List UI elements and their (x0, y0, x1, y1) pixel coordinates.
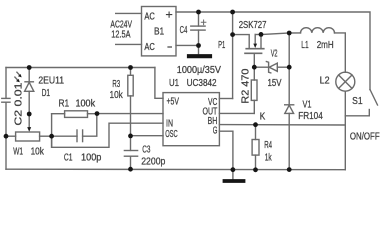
node K (253, 122, 258, 127)
arrowhead: W1 wiper (27, 127, 31, 132)
bridge rectifier B1 box (142, 7, 177, 56)
svg-text:C4: C4 (180, 24, 188, 36)
svg-text:ON/OFF: ON/OFF (350, 131, 380, 143)
svg-text:K: K (260, 110, 266, 122)
transistor Q1 2SK727 drain lead (233, 35, 250, 49)
ground symbol under C4 (189, 54, 210, 58)
wire: VC pin to riser (219, 98, 232, 100)
capacitor C4 polarity plus sign (201, 20, 206, 25)
wire: IN pin route to W1 node (52, 123, 163, 147)
svg-text:C2 0.01: C2 0.01 (12, 82, 24, 125)
capacitor C3 plates (124, 150, 137, 152)
photodiode D1 triangle (25, 82, 34, 91)
svg-text:100k: 100k (76, 97, 96, 109)
node: zener right on V1 riser (287, 65, 292, 70)
wire: source line continues to L1 (289, 32, 300, 34)
capacitor C2 plates (2, 97, 10, 99)
wire: lamp bottom down to bottom rail corner (344, 91, 346, 170)
node: W1 right / feedback (49, 134, 54, 139)
svg-text:C1: C1 (64, 151, 73, 163)
svg-text:2EU11: 2EU11 (38, 74, 64, 86)
svg-text:FR104: FR104 (298, 110, 323, 122)
svg-text:R4: R4 (264, 139, 272, 151)
capacitor C4 top lead (198, 12, 200, 26)
wire: G pin to ground drop (219, 131, 233, 170)
svg-text:+5V: +5V (167, 96, 180, 108)
wire: C3 bottom lead to rail (130, 156, 132, 169)
diode V1 triangle (285, 105, 294, 113)
diode V1 anode lead down to bottom rail (288, 113, 290, 169)
label + in bridge (drawn) (166, 12, 172, 18)
node: R3 top on left rail (128, 65, 133, 70)
node: ground drop on rail (231, 167, 236, 172)
switch S1 fixed contact stub (368, 110, 370, 116)
svg-text:V2: V2 (271, 47, 278, 59)
node: R4 bottom on rail (253, 167, 258, 172)
capacitor C1 right lead up to node (83, 114, 97, 137)
svg-text:OSC: OSC (165, 128, 178, 140)
wire: OSC pin to R3/C3 node (131, 135, 164, 137)
node: source line / V1 riser (287, 31, 292, 36)
node: Q1 source (259, 32, 264, 37)
zener diode V2 cathode bar with hooks (266, 62, 270, 73)
svg-text:S1: S1 (352, 95, 363, 107)
diode V1 FR104 cathode bar (285, 104, 294, 106)
wire: R2 bottom lead down to OUT wire (253, 100, 255, 113)
inductor L1 coil humps (301, 28, 335, 33)
svg-text:W1: W1 (13, 146, 23, 158)
svg-text:D1: D1 (42, 87, 50, 99)
svg-text:G: G (213, 125, 218, 137)
svg-text:1000µ/35V: 1000µ/35V (177, 64, 221, 76)
wire: +5V pin riser to left rail (155, 68, 163, 99)
svg-text:L2: L2 (320, 75, 330, 87)
wire: bridge minus output to C4 bottom node (176, 44, 199, 46)
svg-text:1k: 1k (265, 151, 272, 163)
svg-text:U1: U1 (169, 77, 179, 89)
wire: AC input lower lead (116, 43, 142, 45)
photodiode D1 top lead (28, 68, 30, 82)
wire: node K down to R4 (255, 125, 257, 140)
transistor Q1 gate lead down to zener node (253, 53, 255, 67)
wire: riser from source node down through zener node to V1 (288, 33, 290, 105)
wire: top +35V rail from bridge to right edge and down to switch (176, 12, 370, 90)
svg-text:10k: 10k (110, 89, 124, 101)
wire: R1 left lead (52, 113, 65, 115)
wire: node up to R1 branch (51, 114, 53, 148)
wire: OSC node down to C3 (130, 136, 132, 151)
wire: COMP pin to R1/C1 node (97, 113, 163, 115)
svg-text:P1: P1 (218, 39, 225, 51)
node: gate/zener/R2 (252, 65, 257, 70)
svg-text:10k: 10k (31, 146, 45, 158)
capacitor C1 left lead (52, 135, 77, 137)
node: wiper wire joint (27, 112, 32, 117)
wire: AC input upper lead (116, 12, 142, 14)
node: D1 top on left rail (27, 65, 32, 70)
svg-text:2mH: 2mH (317, 39, 334, 51)
photodiode D1 cathode bar (25, 81, 33, 83)
wire: R3 top lead (130, 68, 132, 76)
IC U1 UC3842 box (163, 93, 219, 146)
resistor R4 body (252, 140, 259, 156)
node: left wire / W1 (4, 134, 9, 139)
wire: left edge vertical with C2 (5, 68, 7, 99)
switch S1 blade (370, 90, 378, 106)
capacitor C4 plates (191, 25, 205, 27)
wire: R4 bottom to rail (255, 155, 257, 170)
wire: OUT pin to R2 bottom (219, 112, 254, 114)
wire: D1 anode down to W1 wiper (28, 91, 30, 127)
transistor Q1 source lead and node (261, 33, 289, 49)
svg-text:L1: L1 (301, 39, 308, 51)
node: C4 bottom / minus output (196, 43, 201, 48)
node: OSC R3 C3 (128, 134, 133, 139)
node: drain line on riser (230, 32, 235, 37)
wire: R2 top lead from gate node (253, 67, 255, 80)
wire: W1 right lead to node (40, 135, 52, 137)
lamp L2 circle with X (336, 72, 355, 91)
svg-text:2200p: 2200p (141, 156, 165, 168)
resistor R2 body (251, 80, 257, 100)
svg-text:AC: AC (144, 11, 155, 23)
wire: switch contact to lamp bottom node (345, 115, 369, 117)
svg-text:100p: 100p (81, 151, 102, 163)
potentiometer W1 body (16, 132, 40, 141)
capacitor C4 bottom lead (198, 30, 200, 53)
wire: bottom ground rail (6, 168, 345, 171)
zener diode V2 triangle (269, 63, 277, 71)
wire: ground stub below rail (232, 170, 234, 180)
wire: R1 right lead (88, 113, 98, 115)
svg-text:B1: B1 (154, 26, 164, 38)
resistor R1 body (65, 111, 88, 118)
photodiode D1 incident light arrows (17, 72, 20, 76)
ground symbol under G pin (225, 179, 244, 183)
transistor Q1 gate bar (245, 52, 262, 54)
wire: R3 bottom lead to OSC node (130, 96, 132, 136)
svg-text:UC3842: UC3842 (187, 77, 217, 89)
node: R1-C1 right / COMP (95, 111, 100, 116)
svg-text:AC: AC (144, 41, 155, 53)
svg-text:12.5A: 12.5A (111, 29, 130, 41)
node: C3 bottom on rail (128, 167, 133, 172)
node: V1 anode on rail (287, 167, 292, 172)
wire: left top rail to +5V riser (6, 67, 155, 69)
zener diode V2 right lead (278, 66, 290, 68)
label - in bridge (drawn) (167, 46, 172, 48)
resistor R3 body (128, 75, 133, 96)
wire: riser from top rail to drain line and VC pin (232, 12, 234, 99)
svg-text:R1: R1 (59, 97, 70, 109)
node: riser on +rail (230, 10, 235, 15)
transistor Q1 substrate arrow (255, 34, 261, 36)
node: C4 top on +rail (196, 10, 201, 15)
svg-text:V1: V1 (303, 99, 312, 111)
svg-text:R2 470: R2 470 (239, 68, 251, 103)
wire: BH pin through node K to lamp bottom wire (219, 124, 345, 126)
wire: L1 to lamp top (335, 33, 346, 72)
capacitor C1 plates (76, 130, 78, 142)
transistor Q1 channel bar (246, 48, 264, 50)
svg-text:2SK727: 2SK727 (239, 19, 267, 31)
zener diode V2 left lead from gate node (254, 66, 268, 68)
svg-text:15V: 15V (268, 77, 282, 89)
svg-text:C3: C3 (142, 144, 150, 156)
wire: W1 left lead (6, 135, 16, 137)
